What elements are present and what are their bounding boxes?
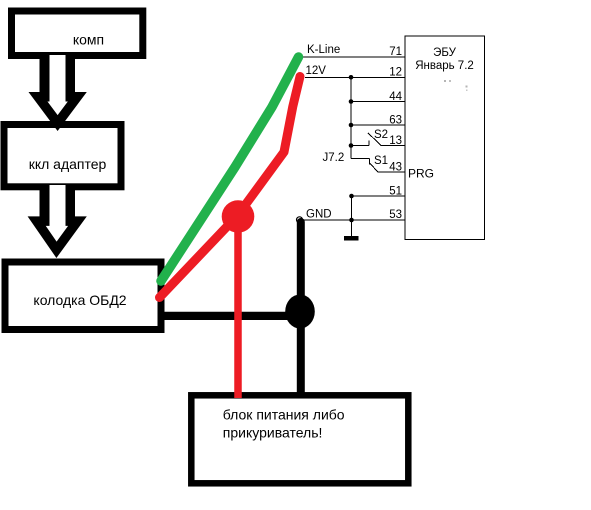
pin 71 K-Line wire [303,56,406,58]
ECU box U1 (EBU Yanvar 7.2) [405,36,485,240]
black ground wire OBD2 to junction [160,312,296,320]
red 12V wire OBD2 to pin 12 [160,77,301,298]
switch S2 tick [368,140,370,145]
svg-text:43: 43 [389,161,402,173]
svg-text:прикуриватель!: прикуриватель! [223,425,323,441]
svg-text:PRG: PRG [408,167,434,181]
pin 51 wire [352,195,406,197]
junction dot pin 44 [349,99,354,104]
svg-text:GND: GND [306,208,332,220]
svg-text:ЭБУ: ЭБУ [433,47,457,59]
block KKL adapter box [4,125,121,187]
svg-text:71: 71 [389,46,402,58]
pin 63 wire [351,124,405,126]
ground bar [344,236,358,240]
svg-text:13: 13 [389,135,402,147]
green K-Line wire OBD2 to pin 71 [161,57,299,281]
red junction blob [222,200,255,233]
arrow from kkl adapter to OBD2 connector [28,185,87,258]
svg-text:12: 12 [389,66,402,78]
svg-text:J7.2: J7.2 [323,152,345,164]
node GND circle terminal [297,217,303,223]
svg-text:53: 53 [389,209,402,221]
junction dot pin 12 [349,75,354,80]
svg-text:комп: комп [73,31,104,47]
black wire junction to power supply box [297,311,305,398]
block power supply box [191,395,408,483]
switch S1 blade [370,163,378,172]
switch S2 blade [368,133,381,146]
bus wire 12V to S2 stub [350,77,352,145]
pin 13 wire [381,145,405,147]
svg-text:S1: S1 [374,155,388,167]
bus wire S2 stub to S1 stub [350,146,352,159]
faint artifact dots [444,80,446,82]
svg-text:K-Line: K-Line [307,44,340,56]
pin 44 wire [351,101,405,103]
block KOMP (computer) box [12,11,143,56]
svg-text:44: 44 [389,91,402,103]
svg-text:ккл адаптер: ккл адаптер [29,156,107,172]
black junction blob [285,295,315,329]
svg-text:63: 63 [389,114,402,126]
pin 12 12V wire [305,76,405,78]
svg-text:колодка ОБД2: колодка ОБД2 [33,292,126,308]
bus wire 51 to ground [351,196,353,236]
switch S1 tick [368,158,370,164]
junction dot pin 51 [349,194,354,199]
svg-text:S2: S2 [374,129,388,141]
red wire junction to power supply box [234,220,242,398]
svg-text:51: 51 [389,185,402,197]
black wire junction to GND terminal [297,222,305,311]
wire S2 stub [351,145,369,147]
block OBD2 connector box [5,262,161,330]
wire S1 stub [351,157,369,159]
pin 53 GND wire [302,219,406,221]
junction dot pin 63 [349,123,354,128]
svg-text:блок питания либо: блок питания либо [223,407,345,423]
arrow from komp to kkl adapter [29,55,87,131]
pin 43 wire [378,171,406,173]
svg-text:12V: 12V [306,65,327,77]
junction dot S2 stub [349,143,354,148]
junction dot pin 53 [349,218,354,223]
svg-text:Январь 7.2: Январь 7.2 [415,60,474,72]
